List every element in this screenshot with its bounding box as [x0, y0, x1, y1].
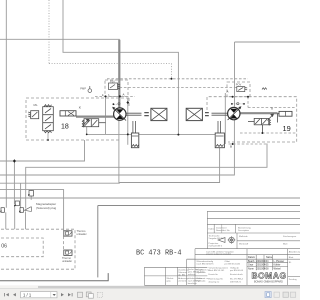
- filter 19: [215, 121, 224, 148]
- svg-text:ML: ML: [34, 103, 38, 107]
- svg-text:Name: Name: [266, 256, 273, 259]
- svg-text:2002/04/05: 2002/04/05: [257, 264, 270, 267]
- shaft stub left: [144, 113, 149, 116]
- svg-text:Blatt: Blatt: [283, 243, 288, 246]
- svg-text:Gültig ab: Gültig ab: [230, 266, 240, 269]
- svg-text:18: 18: [61, 124, 69, 131]
- wire A-port group19 vertical: [224, 93, 226, 144]
- svg-text:Zeichng: Zeichng: [289, 279, 298, 281]
- svg-text:Blatt: Blatt: [289, 256, 294, 259]
- group 19 boundary: [207, 97, 297, 142]
- svg-text:Datum: Datum: [248, 256, 255, 259]
- orifice 19: [279, 111, 292, 116]
- svg-text:Bearb: Bearb: [248, 260, 255, 263]
- thick wire into pump18 from top: [118, 40, 120, 108]
- thick wire orifice to pump18: [76, 115, 114, 117]
- pilot dashed y87.5: [120, 87, 238, 89]
- wire pump18 right vertical: [127, 98, 129, 145]
- coupling X-box 2: [186, 108, 202, 120]
- svg-text:Hydraulik: Hydraulik: [197, 271, 207, 274]
- svg-text:gew.: gew.: [167, 280, 172, 282]
- pilot valve 18: [109, 83, 121, 90]
- relief valve small: [28, 111, 38, 119]
- wire valve19 drain short: [86, 127, 88, 135]
- svg-text:Gepr: Gepr: [248, 264, 254, 267]
- svg-text:Name/det. Na: Name/det. Na: [216, 229, 230, 232]
- frame left: [97, 206, 99, 278]
- plug box b3: [1, 208, 4, 213]
- wire y189.6: [0, 190, 64, 231]
- dashed y144: [229, 143, 268, 145]
- plug box b2: [20, 208, 23, 213]
- svg-text:gb. BN: gb. BN: [178, 275, 185, 277]
- svg-text:Zeichnungsnr: Zeichnungsnr: [283, 235, 297, 238]
- svg-text:Zeichnungs Nr.: Zeichnungs Nr.: [209, 278, 224, 281]
- pilot box 19: [227, 82, 250, 97]
- pilot box 18: [105, 80, 128, 96]
- svg-text:x: x: [79, 104, 81, 109]
- wire return line y167: [26, 144, 267, 209]
- shaft pump18 to box1: [126, 113, 142, 115]
- svg-text:per BN 06-04: per BN 06-04: [230, 269, 244, 272]
- wire drain pump18 down: [119, 120, 220, 183]
- dashes to thermo box2: [63, 236, 65, 250]
- dashed x108.6 right: [248, 107, 296, 109]
- wire top horizontal to pump 18: [0, 39, 119, 110]
- orifice 18: [60, 111, 76, 116]
- svg-text:BOMAG GMBH BOPPARD: BOMAG GMBH BOPPARD: [254, 280, 283, 283]
- svg-text:Description: Description: [238, 229, 250, 232]
- wire pump19 drain down-left: [0, 120, 234, 176]
- svg-text:unserer zulässig gestattet: unserer zulässig gestattet: [206, 252, 231, 255]
- plug box b1: [15, 201, 19, 206]
- svg-text:x: x: [271, 105, 273, 110]
- svg-text:A: A: [227, 90, 229, 94]
- plug box b4: [29, 191, 34, 197]
- junction dots: [13, 78, 264, 163]
- projection symbol: [218, 236, 236, 244]
- svg-text:Index: Index: [209, 229, 215, 231]
- wire y161 with branch: [0, 140, 85, 204]
- page bottom edge: [0, 273, 108, 281]
- svg-text:A: A: [123, 93, 125, 97]
- svg-text:BOMAG: BOMAG: [252, 270, 287, 280]
- wire top via x=63: [63, 0, 178, 135]
- svg-text:008 918 21: 008 918 21: [230, 282, 242, 284]
- scrollbar strip: [0, 286, 300, 289]
- frame top: [98, 205, 300, 207]
- svg-text:Verwendungszweck: Verwendungszweck: [209, 266, 229, 269]
- spring valve 18: [82, 119, 105, 127]
- wire dotted x49: [49, 0, 172, 79]
- shaft stub right: [205, 113, 209, 116]
- nav first: [4, 293, 16, 296]
- relief zigzag floating: [262, 88, 267, 90]
- valve 19 with spring right: [248, 114, 279, 133]
- thick wire pump19 to orifice19: [240, 112, 278, 114]
- svg-text:PMP: PMP: [80, 87, 86, 91]
- wire left long vertical: [5, 0, 7, 208]
- svg-text:Abänderung: Abänderung: [289, 250, 300, 253]
- valve 18 stack: [43, 105, 54, 140]
- pilot valve 19: [237, 87, 247, 92]
- svg-text:L. Plesser: L. Plesser: [274, 260, 285, 263]
- svg-text:BC 473 RB-4: BC 473 RB-4: [230, 279, 244, 281]
- title block tiny text: [167, 227, 302, 285]
- wire y198 full: [0, 197, 300, 199]
- tank dashed outer box: [0, 229, 75, 269]
- svg-text:Ersatz für: Ersatz für: [209, 273, 219, 276]
- svg-text:nach BN 53-101: nach BN 53-101: [209, 270, 226, 272]
- small icons: [78, 292, 103, 298]
- svg-text:1 / 1: 1 / 1: [23, 292, 32, 297]
- svg-text:vermerk: vermerk: [178, 279, 187, 282]
- thermo unloader box 2: [64, 250, 72, 255]
- shaft box2 to pump19: [212, 113, 228, 115]
- svg-text:PSV: PSV: [110, 81, 115, 84]
- thermo unloader box 1: [64, 231, 72, 236]
- filter 18: [131, 121, 138, 148]
- wire magnet drop lines: [20, 183, 22, 213]
- svg-text:POV: POV: [236, 82, 242, 86]
- wire y183 left: [0, 182, 120, 184]
- svg-text:drawing no: drawing no: [209, 281, 220, 284]
- svg-text:unloader: unloader: [62, 259, 72, 263]
- svg-text:zulässig: zulässig: [188, 274, 197, 276]
- svg-text:2002/04/04: 2002/04/04: [257, 260, 270, 263]
- thick gray pressure lines: [76, 40, 278, 117]
- svg-text:06: 06: [1, 244, 7, 250]
- pilot dashed top18: [95, 95, 135, 97]
- svg-text:BC 473 RB-4: BC 473 RB-4: [136, 250, 182, 258]
- pilot dashed y78.8: [107, 78, 248, 80]
- right icon group: [265, 292, 296, 298]
- svg-text:per BN 53-1045: per BN 53-1045: [225, 262, 241, 265]
- coupling X-box 1: [151, 108, 167, 120]
- svg-text:unloader: unloader: [77, 232, 87, 236]
- svg-text:method DIN 6: method DIN 6: [209, 245, 223, 248]
- nav next: [61, 293, 73, 296]
- wire top-right big rectangle: [235, 42, 301, 107]
- svg-text:Köhler: Köhler: [274, 264, 281, 267]
- toolbar background: [0, 288, 300, 300]
- callout funnel: [24, 207, 31, 212]
- svg-text:B: B: [230, 145, 232, 149]
- tank dashed inner box: [0, 238, 43, 257]
- PMP gauge: [88, 86, 92, 92]
- svg-text:19: 19: [283, 124, 291, 133]
- svg-text:Maßstab: Maßstab: [239, 235, 248, 238]
- wire A-port group18 vertical: [105, 96, 107, 134]
- svg-text:Hydraulic: Hydraulic: [197, 279, 207, 282]
- group 18 boundary: [26, 98, 129, 140]
- page combo: [21, 292, 58, 298]
- svg-text:Werkstoff: Werkstoff: [239, 243, 249, 246]
- svg-text:Ersetzt durch: Ersetzt durch: [230, 273, 244, 276]
- svg-text:(Solenoid) plug: (Solenoid) plug: [36, 206, 57, 210]
- svg-text:nach BN 06/1075: nach BN 06/1075: [197, 263, 215, 265]
- wire H135: [87, 133, 216, 135]
